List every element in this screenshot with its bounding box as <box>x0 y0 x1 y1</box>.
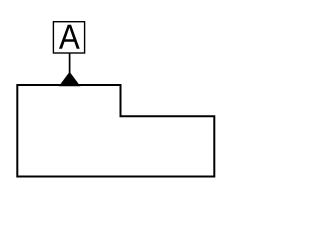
datum frame box A <box>53 22 84 53</box>
part outline (stepped block) <box>17 85 214 177</box>
datum feature triangle (filled) <box>60 73 80 86</box>
datum label A <box>59 25 80 49</box>
datum leader line <box>69 53 71 76</box>
